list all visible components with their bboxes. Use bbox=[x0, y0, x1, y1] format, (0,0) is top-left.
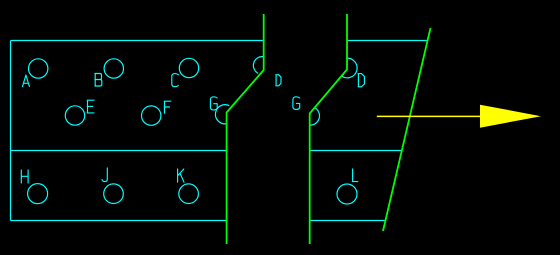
label E bbox=[87, 100, 94, 113]
wire: L box bottom edge bbox=[310, 220, 386, 222]
contact D2 arc bbox=[342, 58, 357, 78]
contact C circle bbox=[179, 58, 198, 77]
label G1 bbox=[210, 97, 217, 110]
rotor shaft diagonal bbox=[383, 28, 431, 231]
wire: wafer top edge left segment bbox=[11, 40, 264, 42]
label G2 bbox=[293, 97, 300, 110]
contact G2 arc bbox=[310, 107, 320, 125]
contact D1 arc bbox=[253, 57, 263, 74]
wire: wafer left edge bbox=[10, 41, 12, 221]
contact J circle bbox=[104, 184, 124, 204]
contact F circle bbox=[142, 106, 161, 125]
wire: lower-left box bottom edge bbox=[11, 220, 227, 222]
label L bbox=[352, 169, 358, 182]
arrow head bbox=[480, 105, 541, 128]
contact G1 arc bbox=[215, 105, 229, 124]
switch arm 2 (pole D-G wiper) bbox=[310, 14, 347, 244]
contact E circle bbox=[65, 106, 84, 125]
contact H circle bbox=[28, 184, 48, 204]
label C bbox=[172, 74, 179, 87]
wire: wafer mid horizontal left bbox=[11, 150, 227, 152]
label B bbox=[95, 74, 102, 87]
wire: wafer top edge right segment bbox=[347, 40, 428, 42]
contact K circle bbox=[179, 184, 199, 204]
switch arm 1 (pole D-G wiper) bbox=[227, 14, 264, 244]
wire: L box top edge bbox=[310, 150, 403, 152]
arrow shaft bbox=[377, 115, 480, 117]
contact A circle bbox=[29, 59, 48, 78]
contact B circle bbox=[104, 59, 123, 78]
contact L circle bbox=[337, 184, 357, 204]
label A bbox=[23, 75, 30, 87]
label D2 bbox=[358, 74, 364, 87]
label K bbox=[178, 169, 184, 182]
label D1 bbox=[276, 75, 281, 86]
label F bbox=[164, 101, 171, 113]
label J bbox=[102, 168, 107, 182]
label H bbox=[21, 170, 28, 183]
